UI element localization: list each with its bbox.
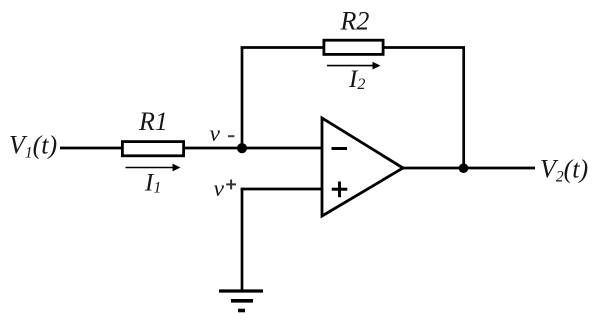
svg-text:v: v	[214, 176, 225, 202]
wire R2 to feedback right vertical leg	[383, 46, 465, 49]
svg-text:v: v	[210, 121, 221, 147]
node v- junction dot	[237, 143, 247, 153]
current arrow I2	[327, 62, 381, 70]
svg-text:V2(t): V2(t)	[540, 155, 588, 186]
label node v+	[214, 176, 237, 202]
op-amp U1 triangle	[322, 118, 403, 216]
label node v-	[210, 121, 235, 147]
ground symbol	[219, 291, 263, 311]
svg-text:R1: R1	[138, 107, 168, 136]
resistor R2	[324, 40, 383, 54]
wire feedback left vertical leg	[241, 47, 244, 149]
op-amp inverting pin minus sign	[332, 147, 348, 150]
wire input V1 to R1	[60, 147, 122, 150]
wire v+ horizontal to op-amp	[241, 188, 322, 191]
current arrow I1	[126, 164, 181, 172]
node output junction dot	[459, 163, 469, 173]
wire feedback right vertical leg	[462, 47, 465, 169]
wire v+ vertical to ground	[241, 188, 244, 291]
svg-text:R2: R2	[340, 7, 370, 36]
resistor R1	[122, 142, 183, 156]
wire feedback top left to R2	[241, 46, 323, 49]
wire op-amp output to V2	[403, 167, 535, 170]
wire R1 to op-amp inverting input	[184, 147, 322, 150]
svg-text:V1(t): V1(t)	[9, 131, 57, 162]
op-amp non-inverting pin plus sign	[332, 182, 348, 198]
